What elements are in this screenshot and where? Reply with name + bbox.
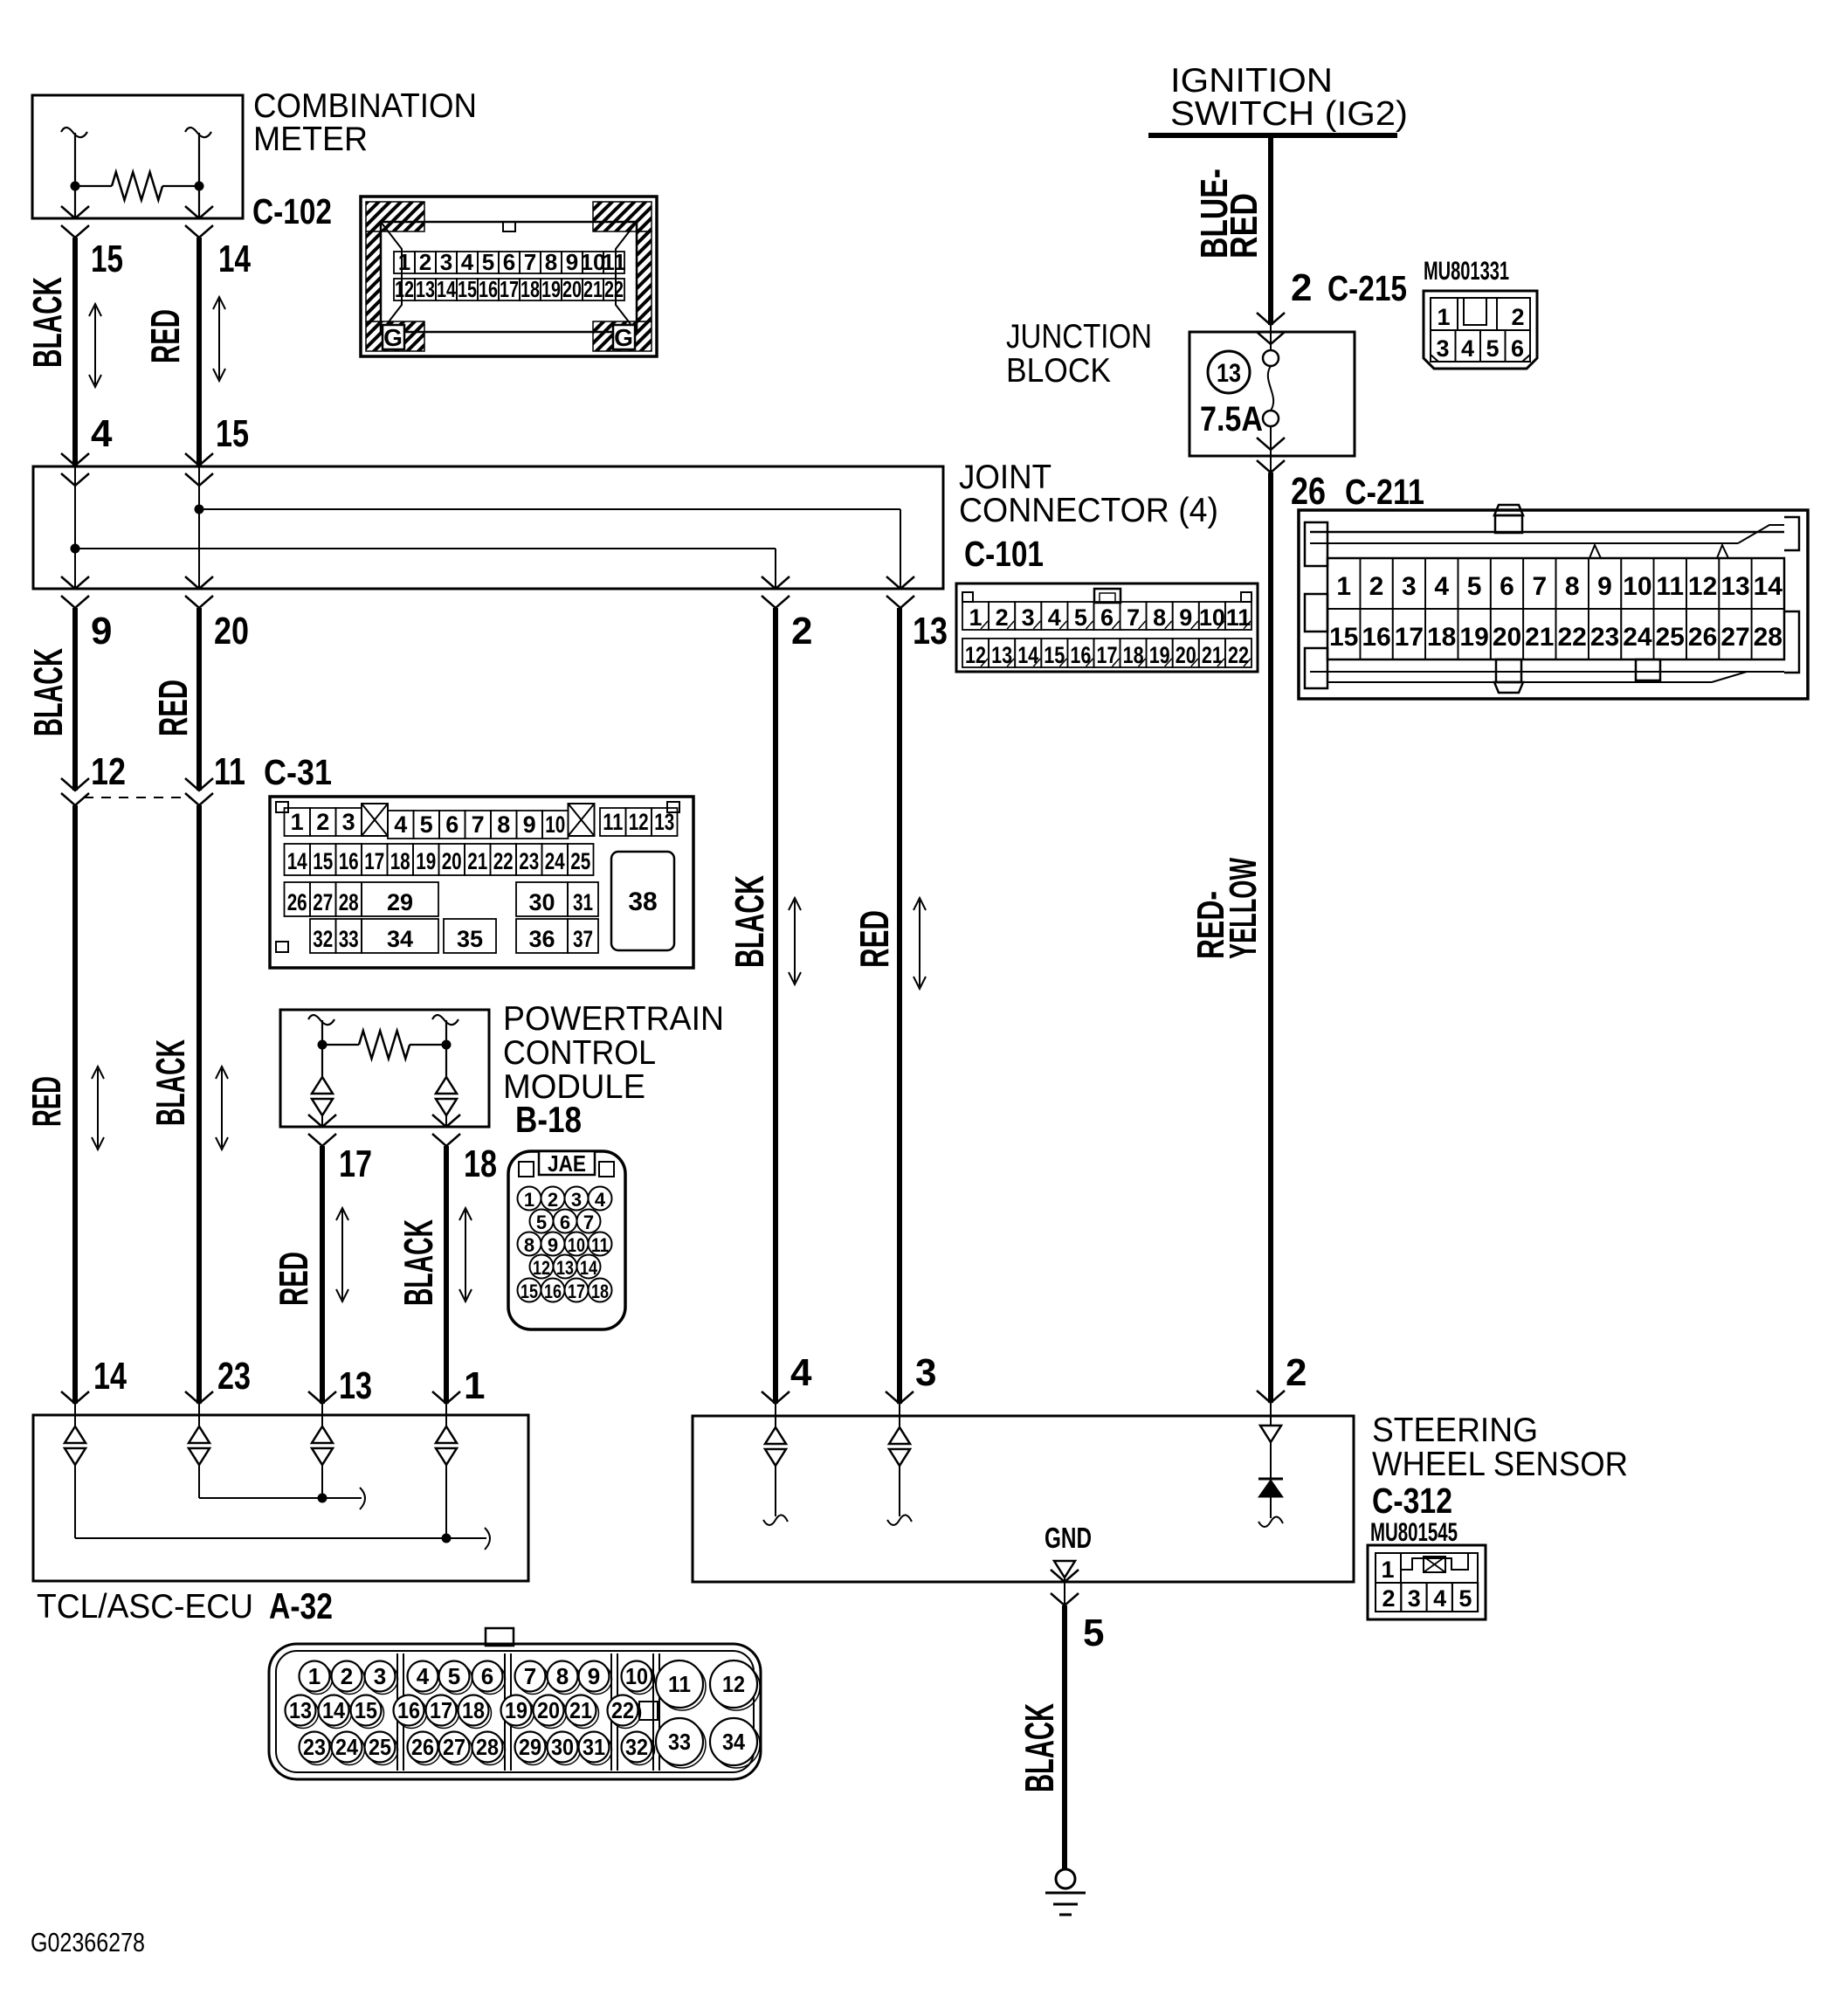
steering wheel sensor box: [693, 1416, 1354, 1582]
svg-text:20: 20: [1493, 623, 1521, 652]
exit chevrons GND:5: [1064, 1578, 1065, 1605]
svg-text:2: 2: [1369, 572, 1384, 601]
svg-text:1: 1: [464, 1364, 485, 1407]
svg-text:38: 38: [628, 887, 657, 916]
connector illustration C-101: [956, 583, 1258, 672]
svg-text:13: 13: [416, 276, 435, 302]
wire RED C-101:13 to sensor:3: [897, 608, 902, 1404]
svg-text:3: 3: [374, 1663, 386, 1689]
svg-text:11: 11: [1226, 604, 1251, 631]
svg-text:RED: RED: [142, 309, 188, 363]
svg-text:IGNITION: IGNITION: [1170, 62, 1333, 100]
joint connector (4) box C-101: [33, 466, 943, 589]
svg-text:BLACK: BLACK: [727, 875, 772, 968]
svg-text:14: 14: [287, 848, 307, 874]
svg-text:26: 26: [287, 889, 307, 915]
svg-text:23: 23: [303, 1734, 326, 1760]
svg-text:2: 2: [341, 1663, 353, 1689]
svg-text:1: 1: [1336, 572, 1351, 601]
svg-text:RED: RED: [1223, 193, 1265, 259]
svg-text:6: 6: [1511, 335, 1524, 362]
svg-text:10: 10: [1623, 572, 1651, 601]
svg-text:C-31: C-31: [264, 752, 332, 792]
svg-text:RED: RED: [150, 680, 196, 736]
connector illustration C-31: [270, 797, 693, 968]
svg-text:6: 6: [1500, 572, 1514, 601]
svg-text:17: 17: [339, 1143, 372, 1185]
svg-text:3: 3: [1408, 1585, 1421, 1612]
svg-text:11: 11: [214, 750, 245, 793]
exit chevrons pin 18: [432, 1115, 460, 1127]
svg-text:27: 27: [443, 1734, 465, 1760]
svg-text:15: 15: [1329, 623, 1358, 652]
TCL pin symbols 14: [74, 1404, 76, 1426]
svg-text:5: 5: [536, 1212, 547, 1233]
svg-text:8: 8: [497, 811, 510, 838]
svg-text:6: 6: [1100, 604, 1114, 631]
svg-text:21: 21: [467, 848, 487, 874]
svg-text:16: 16: [397, 1697, 420, 1723]
svg-text:18: 18: [464, 1143, 497, 1185]
svg-text:17: 17: [1395, 623, 1424, 652]
svg-text:8: 8: [1153, 604, 1166, 631]
svg-text:7: 7: [1127, 604, 1140, 631]
svg-text:13: 13: [1720, 572, 1749, 601]
svg-text:31: 31: [573, 889, 593, 915]
wire RED C-102:14 to joint C-101:15: [197, 238, 202, 466]
svg-text:30: 30: [528, 889, 555, 915]
svg-text:25: 25: [1656, 623, 1685, 652]
svg-text:20: 20: [442, 848, 462, 874]
svg-text:5: 5: [482, 249, 494, 275]
connector illustration C-102: [361, 197, 657, 356]
svg-text:7: 7: [583, 1212, 594, 1233]
svg-text:8: 8: [545, 249, 557, 275]
svg-text:19: 19: [541, 276, 561, 302]
svg-text:28: 28: [339, 889, 359, 915]
svg-text:G02366278: G02366278: [31, 1927, 145, 1957]
svg-text:26: 26: [1291, 470, 1326, 513]
sensor pin symbols 3: [899, 1404, 900, 1427]
twist arrow: [97, 1069, 99, 1147]
svg-text:C-211: C-211: [1345, 472, 1424, 512]
svg-text:13: 13: [289, 1697, 312, 1723]
svg-text:3: 3: [1402, 572, 1417, 601]
svg-text:22: 22: [493, 848, 514, 874]
wire BLACK C-101:9 to C-31:12: [72, 608, 78, 791]
svg-text:3: 3: [440, 249, 452, 275]
svg-text:7: 7: [1532, 572, 1547, 601]
wire RED C-31:12 to A-32:14: [72, 805, 78, 1404]
svg-text:CONNECTOR (4): CONNECTOR (4): [959, 492, 1218, 529]
in-line connector C-31 chevrons left: [61, 778, 89, 791]
entry chevron sensor:2: [1257, 1391, 1285, 1403]
wire RED B-18:17 to A-32:13: [320, 1146, 325, 1404]
entry chevrons pin 15: [185, 453, 213, 466]
svg-text:5: 5: [1083, 1612, 1104, 1654]
exit chevrons (junction block): [1270, 426, 1272, 473]
svg-text:14: 14: [580, 1257, 598, 1279]
svg-text:BLACK: BLACK: [396, 1219, 441, 1306]
svg-text:8: 8: [556, 1663, 569, 1689]
svg-text:BLACK: BLACK: [25, 648, 71, 736]
ignition switch bus bar: [1148, 133, 1397, 138]
svg-text:12: 12: [1688, 572, 1717, 601]
svg-text:18: 18: [521, 276, 540, 302]
entry chevron A-32:13: [308, 1391, 336, 1404]
svg-text:C-215: C-215: [1327, 268, 1407, 308]
svg-text:6: 6: [503, 249, 515, 275]
svg-text:1: 1: [969, 604, 982, 631]
svg-text:RED: RED: [852, 910, 897, 968]
svg-text:RED: RED: [24, 1076, 69, 1127]
svg-text:C-312: C-312: [1372, 1481, 1452, 1521]
svg-text:3: 3: [915, 1351, 936, 1394]
exit chevrons pin 2: [762, 576, 789, 589]
svg-text:23: 23: [519, 848, 539, 874]
svg-text:MU801545: MU801545: [1370, 1518, 1458, 1547]
svg-text:6: 6: [560, 1212, 570, 1233]
svg-text:31: 31: [583, 1734, 605, 1760]
TCL pin symbols 13: [321, 1404, 323, 1426]
svg-text:5: 5: [1486, 335, 1499, 362]
wire through joint (left black): [74, 466, 76, 589]
entry chevrons pin 4: [61, 453, 89, 466]
svg-text:2: 2: [1511, 304, 1524, 330]
svg-text:15: 15: [216, 412, 249, 455]
svg-text:5: 5: [448, 1663, 460, 1689]
PCM pin symbols 17: [312, 1077, 333, 1094]
svg-text:COMBINATION: COMBINATION: [253, 87, 477, 125]
svg-text:17: 17: [364, 848, 384, 874]
internal jumper 23-13: [198, 1465, 200, 1498]
svg-text:25: 25: [570, 848, 590, 874]
TCL pin symbols 1: [445, 1404, 447, 1426]
svg-text:G: G: [383, 324, 403, 351]
twist arrow: [919, 901, 920, 986]
svg-text:24: 24: [545, 848, 565, 874]
wire BLACK C-101:2 to sensor:4: [773, 608, 778, 1404]
svg-text:9: 9: [548, 1234, 558, 1256]
fuse symbol: [1263, 350, 1279, 366]
svg-text:2: 2: [316, 809, 329, 835]
svg-text:7: 7: [472, 811, 485, 838]
svg-text:15: 15: [91, 238, 123, 280]
svg-text:1: 1: [308, 1663, 321, 1689]
svg-text:27: 27: [313, 889, 333, 915]
svg-text:2: 2: [419, 249, 431, 275]
svg-text:BLACK: BLACK: [24, 277, 70, 368]
svg-text:21: 21: [569, 1697, 592, 1723]
svg-text:6: 6: [445, 811, 459, 838]
svg-text:9: 9: [1597, 572, 1612, 601]
svg-text:18: 18: [462, 1697, 485, 1723]
twist arrow (black wire): [94, 307, 96, 384]
svg-text:26: 26: [411, 1734, 434, 1760]
C-102 pin 14 exit chevrons: [185, 206, 213, 218]
svg-text:21: 21: [583, 276, 603, 302]
svg-text:4: 4: [394, 811, 407, 838]
svg-text:35: 35: [457, 926, 483, 952]
svg-text:POWERTRAIN: POWERTRAIN: [503, 1000, 724, 1038]
svg-text:16: 16: [544, 1281, 562, 1302]
svg-text:4: 4: [1433, 1585, 1446, 1612]
wire BLACK sensor:5 to ground: [1062, 1605, 1067, 1869]
svg-text:13: 13: [556, 1257, 574, 1279]
wire RED-YELLOW C-211:26 to sensor:2: [1268, 473, 1273, 1403]
svg-text:28: 28: [1754, 623, 1782, 652]
svg-text:19: 19: [416, 848, 436, 874]
entry chevrons (junction block): [1257, 313, 1285, 325]
svg-text:24: 24: [1623, 623, 1652, 652]
svg-text:13: 13: [339, 1364, 372, 1407]
svg-text:22: 22: [611, 1697, 634, 1723]
connector illustration C-215 (MU801331): [1424, 257, 1537, 369]
svg-text:11: 11: [591, 1234, 609, 1256]
svg-text:8: 8: [1565, 572, 1580, 601]
twist arrow: [794, 901, 796, 982]
joint bus from red wire to pin 13: [199, 508, 900, 510]
svg-text:9: 9: [588, 1663, 600, 1689]
svg-text:30: 30: [551, 1734, 574, 1760]
svg-text:21: 21: [1525, 623, 1554, 652]
svg-text:BLOCK: BLOCK: [1006, 352, 1111, 390]
fuse circled 13: [1208, 351, 1250, 393]
svg-text:6: 6: [481, 1663, 493, 1689]
svg-text:5: 5: [420, 811, 433, 838]
svg-text:9: 9: [91, 610, 112, 652]
svg-text:5: 5: [1074, 604, 1087, 631]
svg-text:2: 2: [1291, 266, 1312, 309]
C-102 pin 15 exit chevrons: [61, 206, 89, 218]
svg-text:25: 25: [369, 1734, 391, 1760]
svg-text:7.5A: 7.5A: [1200, 400, 1263, 438]
svg-text:YELLOW: YELLOW: [1222, 858, 1265, 959]
svg-text:12: 12: [91, 750, 126, 793]
twist arrow: [221, 1069, 223, 1147]
wire RED C-101:20 to C-31:11: [197, 608, 202, 791]
twist arrow (red wire): [218, 300, 220, 378]
svg-text:1: 1: [1437, 304, 1450, 330]
svg-text:22: 22: [1558, 623, 1587, 652]
svg-text:4: 4: [1048, 604, 1061, 631]
svg-text:11: 11: [602, 249, 626, 275]
svg-text:4: 4: [595, 1189, 606, 1211]
svg-text:10: 10: [545, 811, 565, 838]
twist arrow: [341, 1211, 343, 1299]
svg-text:16: 16: [1362, 623, 1390, 652]
svg-text:7: 7: [524, 1663, 536, 1689]
svg-text:TCL/ASC-ECU: TCL/ASC-ECU: [37, 1588, 253, 1626]
svg-text:17: 17: [568, 1281, 585, 1302]
svg-text:11: 11: [603, 809, 623, 835]
in-line connector C-31 chevrons right: [185, 778, 213, 791]
svg-text:STEERING: STEERING: [1372, 1412, 1538, 1449]
exit chevrons pin 13: [886, 576, 914, 589]
svg-text:33: 33: [668, 1729, 691, 1755]
svg-text:CONTROL: CONTROL: [503, 1034, 656, 1072]
svg-text:14: 14: [322, 1697, 345, 1723]
svg-text:29: 29: [519, 1734, 541, 1760]
svg-text:15: 15: [458, 276, 477, 302]
svg-text:11: 11: [1656, 572, 1684, 601]
exit chevrons pin 20: [185, 576, 213, 589]
svg-text:16: 16: [479, 276, 498, 302]
svg-text:SWITCH (IG2): SWITCH (IG2): [1170, 95, 1408, 133]
svg-text:15: 15: [521, 1281, 538, 1302]
svg-text:16: 16: [339, 848, 359, 874]
svg-text:13: 13: [654, 809, 674, 835]
svg-text:4: 4: [91, 412, 113, 455]
internal jumper 14-1: [74, 1465, 76, 1538]
svg-text:19: 19: [505, 1697, 527, 1723]
svg-text:28: 28: [476, 1734, 499, 1760]
svg-text:4: 4: [1434, 572, 1449, 601]
svg-text:13: 13: [913, 610, 948, 652]
svg-text:C-101: C-101: [964, 534, 1044, 574]
PCM pin symbols 18: [436, 1077, 457, 1094]
resistor inside combination meter: [61, 128, 87, 137]
svg-text:14: 14: [93, 1355, 127, 1398]
connector illustration A-32: [269, 1628, 761, 1779]
svg-text:RED: RED: [271, 1252, 316, 1306]
svg-text:20: 20: [537, 1697, 560, 1723]
powertrain control module box: [280, 1010, 489, 1127]
svg-text:1: 1: [1381, 1557, 1394, 1583]
svg-text:19: 19: [1459, 623, 1488, 652]
svg-text:2: 2: [1382, 1585, 1395, 1612]
svg-text:4: 4: [417, 1663, 430, 1689]
svg-text:22: 22: [604, 276, 624, 302]
svg-text:18: 18: [591, 1281, 609, 1302]
svg-text:26: 26: [1688, 623, 1717, 652]
svg-text:33: 33: [339, 926, 359, 952]
svg-text:BLACK: BLACK: [148, 1039, 193, 1126]
svg-text:GND: GND: [1045, 1522, 1092, 1554]
svg-text:17: 17: [430, 1697, 452, 1723]
svg-text:4: 4: [790, 1351, 812, 1394]
svg-text:14: 14: [218, 238, 251, 280]
resistor inside PCM: [308, 1015, 334, 1025]
wire BLACK C-31:11 to A-32:23: [197, 805, 202, 1404]
svg-text:18: 18: [1427, 623, 1456, 652]
svg-text:34: 34: [387, 926, 413, 952]
svg-text:12: 12: [722, 1671, 745, 1697]
svg-text:8: 8: [524, 1234, 534, 1256]
sensor pin 2 with diode: [1270, 1403, 1272, 1426]
entry chevron A-32:1: [432, 1391, 460, 1404]
svg-text:2: 2: [791, 610, 812, 652]
TCL pin symbols 23: [198, 1404, 200, 1426]
svg-text:METER: METER: [253, 121, 368, 158]
svg-text:29: 29: [387, 889, 413, 915]
svg-text:37: 37: [573, 926, 593, 952]
svg-text:9: 9: [1179, 604, 1192, 631]
wire through joint (red): [198, 466, 200, 589]
exit chevrons pin 9: [61, 576, 89, 589]
combination meter box: [32, 95, 243, 218]
svg-text:23: 23: [1590, 623, 1619, 652]
svg-text:32: 32: [313, 926, 333, 952]
joint bus from black wire to pin 2: [75, 548, 776, 549]
svg-text:24: 24: [335, 1734, 358, 1760]
svg-text:27: 27: [1720, 623, 1749, 652]
svg-text:JAE: JAE: [548, 1150, 586, 1177]
svg-text:5: 5: [1467, 572, 1482, 601]
svg-text:32: 32: [625, 1734, 648, 1760]
dashed link between C-31 pins: [84, 797, 190, 798]
entry chevron A-32:23: [185, 1391, 213, 1404]
svg-text:4: 4: [1461, 335, 1474, 362]
twist arrow: [465, 1211, 466, 1299]
svg-text:14: 14: [437, 276, 456, 302]
svg-text:10: 10: [625, 1663, 648, 1689]
svg-text:3: 3: [1436, 335, 1449, 362]
svg-text:1: 1: [291, 809, 304, 835]
svg-text:MU801331: MU801331: [1424, 257, 1509, 286]
svg-text:17: 17: [500, 276, 519, 302]
svg-text:2: 2: [548, 1189, 558, 1211]
svg-text:10: 10: [1199, 604, 1225, 631]
ground symbol: [1056, 1869, 1075, 1888]
entry chevron A-32:14: [61, 1391, 89, 1404]
svg-text:34: 34: [722, 1729, 745, 1755]
svg-text:BLACK: BLACK: [1017, 1703, 1062, 1792]
junction block box: [1189, 332, 1355, 456]
wire BLUE-RED ignition to junction block: [1268, 135, 1273, 325]
svg-text:9: 9: [566, 249, 578, 275]
TCL/ASC-ECU box: [33, 1415, 528, 1581]
connector illustration C-211: [1299, 505, 1808, 699]
svg-text:JOINT: JOINT: [959, 459, 1052, 496]
sensor pin symbols 4: [775, 1404, 776, 1427]
svg-text:5: 5: [1458, 1585, 1472, 1612]
svg-text:18: 18: [390, 848, 410, 874]
svg-text:WHEEL SENSOR: WHEEL SENSOR: [1372, 1446, 1628, 1483]
entry chevron sensor:3: [886, 1391, 914, 1404]
svg-text:36: 36: [528, 926, 555, 952]
svg-text:12: 12: [395, 276, 414, 302]
svg-text:11: 11: [668, 1671, 691, 1697]
connector illustration B-18 (JAE): [508, 1150, 625, 1329]
svg-text:3: 3: [1022, 604, 1035, 631]
svg-text:1: 1: [398, 249, 410, 275]
svg-text:9: 9: [523, 811, 536, 838]
svg-text:2: 2: [1286, 1351, 1307, 1394]
svg-text:G: G: [614, 324, 633, 351]
exit chevrons pin 17: [308, 1115, 336, 1127]
svg-text:13: 13: [1217, 359, 1241, 388]
svg-text:10: 10: [568, 1234, 585, 1256]
svg-text:B-18: B-18: [515, 1099, 582, 1140]
wire BLACK B-18:18 to A-32:1: [444, 1146, 449, 1404]
entry chevron sensor:4: [762, 1391, 789, 1404]
svg-text:14: 14: [1754, 572, 1783, 601]
svg-text:2: 2: [996, 604, 1009, 631]
svg-text:20: 20: [214, 610, 249, 652]
svg-text:4: 4: [461, 249, 474, 275]
svg-text:20: 20: [562, 276, 582, 302]
svg-text:1: 1: [524, 1189, 534, 1211]
svg-text:12: 12: [533, 1257, 550, 1279]
wire BLACK C-102:15 to joint C-101:4: [72, 238, 78, 466]
svg-text:15: 15: [313, 848, 333, 874]
svg-text:C-102: C-102: [252, 191, 332, 231]
svg-text:7: 7: [524, 249, 536, 275]
svg-text:3: 3: [342, 809, 355, 835]
svg-text:3: 3: [571, 1189, 582, 1211]
svg-text:JUNCTION: JUNCTION: [1006, 318, 1152, 356]
